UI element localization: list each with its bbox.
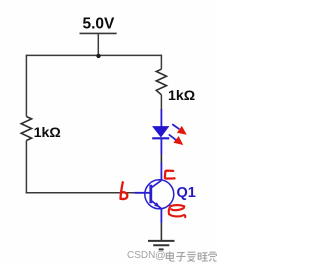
svg-text:1kΩ: 1kΩ bbox=[168, 88, 195, 104]
svg-text:1kΩ: 1kΩ bbox=[34, 125, 61, 141]
svg-text:@: @ bbox=[155, 250, 166, 262]
svg-text:5.0V: 5.0V bbox=[83, 16, 116, 33]
svg-text:CSDN: CSDN bbox=[127, 250, 155, 261]
svg-text:Q1: Q1 bbox=[177, 185, 196, 201]
